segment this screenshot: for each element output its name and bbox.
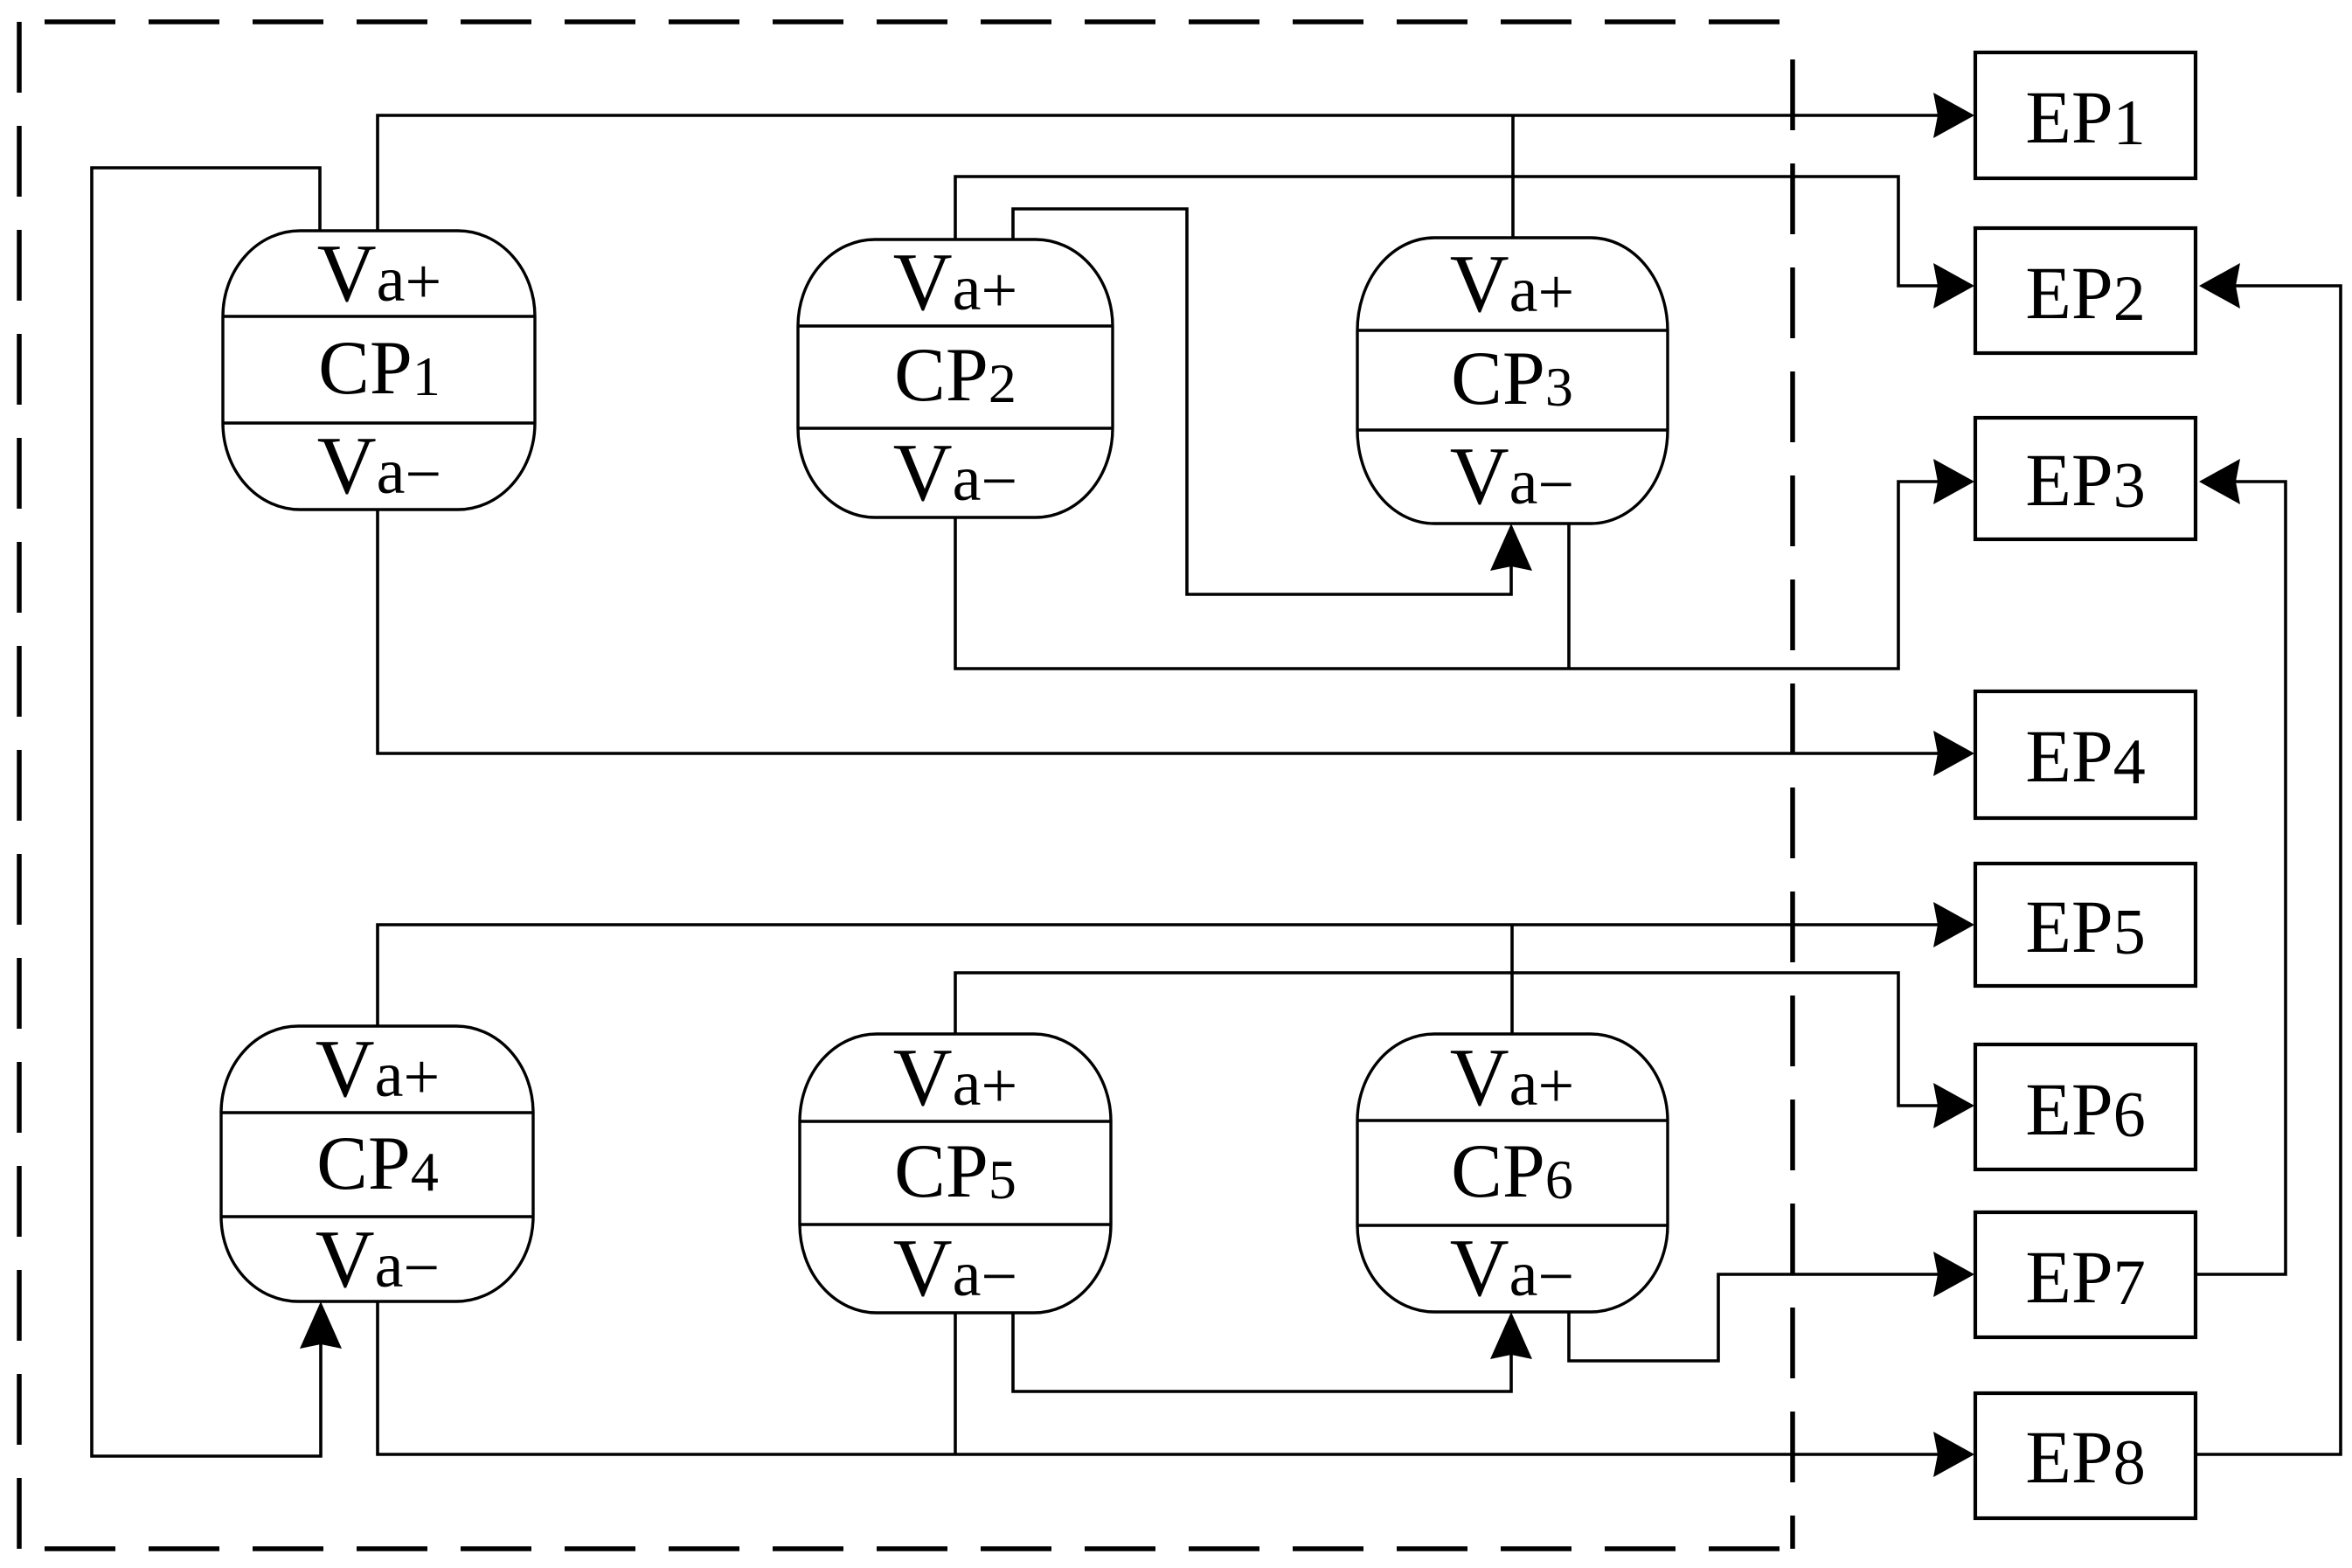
block CP4: [221, 1026, 533, 1301]
arrowhead into EP3 left: [1933, 459, 1974, 504]
wire CP2 Va+ to CP3 Va-: [1013, 209, 1511, 594]
box EP4: [1975, 691, 2196, 818]
box EP7: [1975, 1212, 2196, 1337]
wire loop CP1 Va+ to CP4 Va-: [92, 168, 321, 1456]
wire CP1 Va+ to EP1: [378, 115, 1972, 232]
arrowhead into EP1: [1933, 93, 1974, 138]
arrowhead into EP6: [1933, 1083, 1974, 1128]
svg-text:EP5: EP5: [2025, 885, 2145, 968]
wire EP7 right to EP3 right: [2196, 482, 2286, 1274]
arrowhead into EP5: [1933, 902, 1974, 947]
arrowhead into EP3 right: [2199, 459, 2240, 504]
box EP5: [1975, 864, 2196, 986]
svg-text:EP2: EP2: [2025, 251, 2145, 335]
wire CP2 Va- to EP3: [955, 482, 1972, 669]
box EP2: [1975, 228, 2196, 353]
block CP3: [1357, 238, 1668, 524]
svg-text:EP7: EP7: [2025, 1235, 2145, 1319]
svg-text:EP6: EP6: [2025, 1067, 2145, 1151]
block CP6: [1357, 1034, 1668, 1312]
svg-text:EP3: EP3: [2025, 438, 2145, 522]
arrowhead into EP7: [1933, 1252, 1974, 1297]
block CP2: [798, 239, 1113, 517]
block CP5: [800, 1034, 1111, 1313]
wire CP1 Va- to EP4: [378, 510, 1972, 753]
box EP8: [1975, 1393, 2196, 1518]
arrowhead into EP2 left: [1933, 263, 1974, 309]
wire CP5 Va- down to EP8 rail: [954, 1313, 957, 1454]
box EP6: [1975, 1044, 2196, 1169]
svg-text:EP1: EP1: [2025, 75, 2145, 159]
wire CP5 Va+ to EP6: [955, 973, 1972, 1106]
box EP3: [1975, 418, 2196, 539]
wire CP4 Va- to EP8 rail: [378, 1301, 1972, 1454]
arrowhead into CP6 Va-: [1490, 1312, 1532, 1359]
block CP1: [223, 231, 535, 510]
wire CP6 Va- to EP7: [1569, 1274, 1972, 1361]
box EP1: [1975, 52, 2196, 178]
arrowhead into CP4 Va-: [300, 1301, 342, 1349]
svg-text:EP4: EP4: [2025, 714, 2145, 798]
wire EP8 right to EP2 right: [2196, 286, 2341, 1454]
wire CP3 Va+ up to EP1 line: [1511, 115, 1515, 239]
wire CP6 Va+ up to EP5 line: [1510, 925, 1514, 1035]
wire CP4 Va+ to EP5: [378, 925, 1972, 1026]
wire CP5 Va- to CP6 Va-: [1013, 1313, 1511, 1391]
arrowhead into EP4: [1933, 731, 1974, 776]
wire CP3 Va- down to EP3 line: [1567, 524, 1571, 669]
arrowhead into CP3 Va-: [1490, 524, 1532, 571]
wire CP2 Va+ to EP2: [955, 177, 1972, 286]
arrowhead into EP2 right: [2199, 263, 2240, 309]
arrowhead into EP8: [1933, 1432, 1974, 1477]
dashed enclosure border: [19, 22, 1796, 1549]
svg-text:EP8: EP8: [2025, 1415, 2145, 1499]
